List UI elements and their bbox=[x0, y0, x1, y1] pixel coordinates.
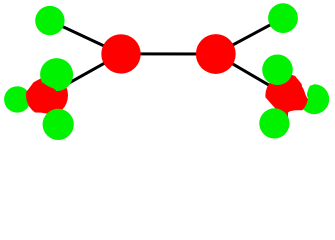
wire bond C3-C4 to right methyl bbox=[216, 54, 287, 96]
atom H green top of right methyl bbox=[262, 55, 293, 86]
atom C2 red central left carbon bbox=[101, 34, 140, 73]
atom H green top-right terminal bbox=[268, 3, 298, 33]
atom C4 red right methyl carbon bbox=[265, 74, 308, 117]
atom H green top-left terminal bbox=[35, 6, 64, 35]
red C1 wedge in front of lower-left of green H (sphere interpenetration) bbox=[43, 83, 57, 92]
wire bond C3-H upper right bbox=[216, 18, 283, 54]
white H sphere bite lower-left of C4 bbox=[257, 97, 277, 116]
white H sphere bite bottom of C1 bbox=[35, 113, 49, 121]
atom C3 red central right carbon bbox=[196, 34, 236, 74]
white H sphere bite bottom of C4 bbox=[288, 110, 303, 119]
atom C1 red left methyl carbon bbox=[26, 74, 68, 116]
atom H green bottom of left methyl bbox=[43, 109, 74, 140]
atom H green outer-right of right methyl bbox=[299, 84, 329, 114]
white H sphere bite upper-left of C1 bbox=[26, 71, 44, 91]
wire bond C2-C1 to left methyl bbox=[47, 54, 121, 95]
white H sphere bite upper-right of C4 bbox=[295, 75, 314, 100]
atom H green outer-left of left methyl bbox=[4, 86, 30, 112]
atom H green top of left methyl bbox=[40, 58, 73, 91]
atom H green bottom of right methyl bbox=[259, 108, 289, 138]
wire bond C2-C3 central bbox=[121, 52, 216, 55]
wire bond H-C2 upper left bbox=[50, 21, 121, 54]
